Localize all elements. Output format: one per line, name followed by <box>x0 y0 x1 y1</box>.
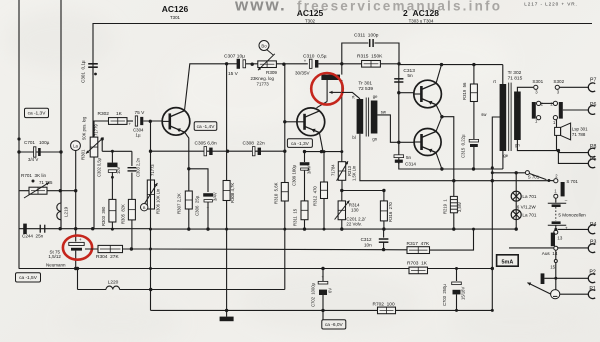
resistor R314 130 pot <box>341 191 343 201</box>
wire Q2 emitter to audio node <box>319 133 323 152</box>
node Q3 base line <box>397 91 400 94</box>
wire R317 right up <box>430 229 474 250</box>
resistor R310 5.6K <box>281 183 288 202</box>
wire base vertical x=284.8 <box>284 64 286 229</box>
wire tone line y=151.3 <box>102 150 132 152</box>
resistor R319 56 <box>473 65 475 84</box>
wire C302 down to R303 <box>111 172 113 199</box>
capacitor C701 100u electrolytic <box>19 151 61 153</box>
capacitor C312 10n <box>383 229 385 238</box>
svg-text:La 701: La 701 <box>522 194 536 199</box>
jack arrow <box>527 283 551 295</box>
wire Q3 collector <box>436 65 441 84</box>
wire main bus y=229.1 <box>151 228 517 230</box>
svg-text:Neumann: Neumann <box>46 262 66 267</box>
svg-text:5n: 5n <box>406 155 412 160</box>
capacitor C315 0.22u <box>469 139 478 142</box>
transistor T302 AC125 <box>297 108 325 136</box>
svg-text:R316 270: R316 270 <box>388 202 393 222</box>
transformer Tr302 secondary winding <box>514 92 521 141</box>
box ca -6,0V <box>322 320 346 329</box>
svg-text:130: 130 <box>351 208 359 213</box>
resistor R305 82K <box>128 199 135 220</box>
svg-text:L219: L219 <box>64 206 69 217</box>
svg-text:5 Monozellen: 5 Monozellen <box>558 213 586 218</box>
wire Q2 base <box>285 121 297 123</box>
wire top rail into Tr302 <box>502 65 504 84</box>
resistor R306 10K pot <box>147 180 154 209</box>
lamp La701 lower <box>511 210 521 220</box>
node base line x284.8 <box>283 150 286 153</box>
wire R313 bottom <box>341 180 343 190</box>
svg-text:ca -6,0V: ca -6,0V <box>325 322 344 328</box>
wire Tr301 primary bottom to switch rail <box>360 134 550 181</box>
wire emitters to R219 column <box>442 117 454 196</box>
wire Aus to P3 <box>509 247 554 249</box>
svg-text:C701: C701 <box>24 140 35 145</box>
wire R304 right to bus <box>123 248 151 250</box>
svg-text:C312: C312 <box>361 237 372 242</box>
svg-text:C301 0,1µ: C301 0,1µ <box>81 60 86 83</box>
wire vertical x=150.5 <box>150 121 152 310</box>
wire bias bar top <box>341 64 343 75</box>
wire second rail x=61 <box>60 0 62 229</box>
wire C307 to R309 <box>246 63 308 65</box>
lamp La701 upper <box>511 191 521 201</box>
svg-text:R307 2,2K: R307 2,2K <box>177 193 182 214</box>
svg-text:100µ: 100µ <box>39 140 50 145</box>
switch contact 13 bar <box>551 233 555 247</box>
node bus x92.7 <box>91 227 94 230</box>
svg-text:6V: 6V <box>328 288 333 293</box>
svg-text:sw: sw <box>381 109 387 114</box>
svg-text:R701 3K lin: R701 3K lin <box>21 173 46 178</box>
svg-text:71773: 71773 <box>257 82 270 87</box>
inductor L219 <box>60 152 62 203</box>
svg-text:AC126: AC126 <box>162 4 189 14</box>
svg-text:ge: ge <box>503 153 508 158</box>
wire jack feed <box>544 277 589 279</box>
svg-text:ca -1,5V: ca -1,5V <box>19 275 38 281</box>
wire x=398.8 vertical <box>398 64 400 164</box>
resistor R316 270 <box>383 191 385 201</box>
node lamp bus <box>515 227 518 230</box>
capacitor C302 0.5u electrolytic <box>111 151 113 162</box>
transistor T301 AC126 <box>162 108 190 136</box>
resistor R315 150K <box>342 63 362 65</box>
wire C314 to emitter bus <box>399 163 503 169</box>
capacitor C310 0.5u <box>309 59 312 68</box>
svg-text:15: 15 <box>550 264 555 269</box>
wire wiper vertical x=341.8 <box>341 80 343 162</box>
svg-text:C307 10µ: C307 10µ <box>224 54 245 60</box>
svg-text:22 Volv.: 22 Volv. <box>346 222 361 227</box>
svg-text:S302: S302 <box>553 79 564 84</box>
wire contact1 to speaker <box>556 120 558 128</box>
capacitor C311 100p <box>342 43 369 64</box>
wire y=190.5 <box>342 190 384 192</box>
svg-text:ca -1,4V: ca -1,4V <box>197 124 216 130</box>
wire C301 down to R301 <box>92 68 94 137</box>
node sw bus 310 <box>491 309 494 312</box>
switch S701 contact 2 <box>554 179 558 183</box>
node Q4 base line <box>397 141 400 144</box>
wire contact 14 down <box>555 250 557 278</box>
switch S302 contact 2 bar <box>559 102 563 119</box>
wire Tr301 secondary tap sw <box>377 115 398 142</box>
svg-text:R304 27K: R304 27K <box>96 254 119 260</box>
svg-text:3/4V: 3/4V <box>213 192 218 201</box>
capacitor C314 5n <box>394 155 404 158</box>
svg-text:3/4V: 3/4V <box>307 165 312 174</box>
svg-text:C308 22n: C308 22n <box>243 141 265 147</box>
svg-text:ca -1,3V: ca -1,3V <box>28 111 47 117</box>
wire St75 down <box>75 251 77 269</box>
annotation red circle around St75 <box>63 236 92 260</box>
svg-text:R305 82K: R305 82K <box>120 204 125 224</box>
capacitor C244 25n <box>23 224 27 234</box>
wire battery plus to P4 <box>558 228 589 230</box>
svg-text:R702 100: R702 100 <box>373 301 395 307</box>
wire C304 to Q1 base <box>143 120 162 122</box>
capacitor C306 25u electrolytic <box>203 193 213 196</box>
wire bus y=268.5 <box>19 268 492 270</box>
svg-text:T303 u T304: T303 u T304 <box>409 19 434 24</box>
svg-text:L217 - L220 + VR.: L217 - L220 + VR. <box>524 2 577 7</box>
svg-text:13: 13 <box>557 235 562 240</box>
wire top rail right <box>399 64 503 66</box>
annotation red circle at driver <box>311 73 343 105</box>
wire C703 branch <box>455 267 458 270</box>
transistor T303 AC128 upper <box>414 80 442 108</box>
wire lamps feed <box>492 172 525 174</box>
wire speaker node to P5 <box>558 151 589 164</box>
node L219 top <box>59 189 62 192</box>
wire bus y=310.4 <box>153 309 493 311</box>
wire Tr302 primary bottom ge <box>502 151 504 169</box>
contact 15 bar <box>541 273 545 284</box>
resistor R313 1.5K lin pot <box>338 162 345 181</box>
svg-text:C314: C314 <box>405 161 416 166</box>
wire S302 to P7 <box>559 86 589 88</box>
node x227.5 on audio line <box>226 150 229 153</box>
svg-text:+: + <box>207 206 210 211</box>
terminal La <box>71 141 81 151</box>
svg-text:La 701: La 701 <box>522 213 536 218</box>
wire jack to P1 <box>560 293 589 295</box>
svg-text:75 V: 75 V <box>135 110 146 116</box>
wire R305 down to R304 node <box>131 220 133 249</box>
svg-text:R310 5,6K: R310 5,6K <box>273 182 278 204</box>
wire bus y=249.0 <box>151 248 408 251</box>
wire Q3 base <box>399 92 414 94</box>
terminal Bo <box>259 41 269 51</box>
svg-text:R308 4,7K: R308 4,7K <box>230 183 235 203</box>
svg-text:R301: R301 <box>81 149 86 160</box>
svg-text:71 788: 71 788 <box>572 132 586 137</box>
svg-text:C311 100p: C311 100p <box>354 33 379 39</box>
wire St75 to R304 <box>85 248 103 250</box>
wire wiper down to tone line <box>101 139 103 151</box>
svg-text:T301: T301 <box>170 15 181 20</box>
svg-text:R703 1K: R703 1K <box>407 261 428 267</box>
node switch out <box>547 179 550 182</box>
wire emitter audio y=151.6 <box>305 151 342 153</box>
wire La down <box>75 151 77 242</box>
svg-text:+: + <box>129 121 132 126</box>
svg-text:R319 56: R319 56 <box>462 82 467 100</box>
capacitor C301 0.1u <box>88 63 98 65</box>
svg-text:gn: gn <box>372 137 377 142</box>
node center bottom bus <box>225 309 228 312</box>
wire Tr302 secondary top to S301 <box>517 87 533 91</box>
box ca -1.3V <box>25 108 49 117</box>
svg-text:C315 0,22µ: C315 0,22µ <box>460 134 465 158</box>
wire bias vertical <box>326 80 328 102</box>
svg-text:3: 3 <box>535 90 538 95</box>
svg-text:sw: sw <box>481 112 487 117</box>
svg-text:R312 470: R312 470 <box>312 186 317 206</box>
resistor R703 1K <box>409 267 428 274</box>
svg-text:30/35V: 30/35V <box>295 70 310 75</box>
svg-text:23Kneg. log: 23Kneg. log <box>251 76 275 81</box>
svg-text:www.: www. <box>234 0 287 15</box>
resistor R304 27K <box>98 245 123 252</box>
svg-text:C702 1000µ: C702 1000µ <box>311 282 316 307</box>
svg-text:S 701: S 701 <box>566 179 578 184</box>
svg-text:10n: 10n <box>364 242 372 247</box>
svg-text:3: 3 <box>557 90 560 95</box>
wire bias wiper arrow <box>329 91 342 93</box>
switch S301 contact 3 <box>534 85 538 89</box>
capacitor C305 6.8n <box>204 147 207 156</box>
node C702 bottom <box>321 309 324 312</box>
svg-text:1,5/12: 1,5/12 <box>48 254 61 259</box>
resistor R701 3K pot <box>29 187 47 194</box>
svg-text:L220: L220 <box>108 280 119 286</box>
svg-text:1,5K Lin: 1,5K Lin <box>352 165 357 181</box>
svg-text:72 539: 72 539 <box>358 86 373 92</box>
switch S302 contact 3 <box>555 85 559 89</box>
wire Q4 base <box>399 141 414 143</box>
wire speaker bottom <box>556 135 558 150</box>
resistor R301 50K pot <box>90 137 98 157</box>
switch S301 contact 2 bar <box>532 102 536 119</box>
svg-text:R306 10K Lin: R306 10K Lin <box>155 188 160 214</box>
terminal B <box>141 204 148 211</box>
switch contact Aus 14 <box>554 246 558 250</box>
svg-text:Tr 301: Tr 301 <box>358 80 372 86</box>
transformer Tr301 primary winding <box>357 99 364 134</box>
svg-text:La: La <box>73 144 78 149</box>
wire Q1 emitter down <box>185 132 189 169</box>
capacitor C303 2.2n <box>131 151 133 166</box>
resistor R309 23K pot <box>258 61 277 68</box>
svg-text:bl: bl <box>517 94 520 99</box>
svg-text:1: 1 <box>553 120 556 125</box>
svg-text:R303 390: R303 390 <box>101 206 106 226</box>
switch contact 15 <box>554 260 557 263</box>
box ca -1,5V <box>16 273 41 282</box>
capacitor C304 1u electrolytic <box>135 116 137 126</box>
resistor R302 1K <box>109 118 128 125</box>
switch S302 contact 1 <box>553 116 557 120</box>
inductor L220 <box>106 286 120 289</box>
capacitor C308 22n <box>252 147 255 156</box>
wire bias wiper to Tr301 primary <box>342 92 360 98</box>
box ca -1,4V <box>194 122 217 131</box>
svg-text:71784: 71784 <box>331 164 336 176</box>
svg-text:3/4 V: 3/4 V <box>28 157 38 162</box>
jack circle <box>551 290 560 299</box>
resistor R317 47K <box>407 247 430 254</box>
wire to La line <box>60 190 75 192</box>
wire top feed from C301 <box>93 24 592 76</box>
wire L220 branch <box>77 269 79 290</box>
resistor R312 470 <box>323 152 325 182</box>
transformer Tr301 core <box>365 98 367 137</box>
svg-text:3,5W: 3,5W <box>457 202 462 212</box>
svg-text:R315 150K: R315 150K <box>357 54 383 60</box>
wire Q1 emitter branch <box>189 169 208 192</box>
switch S701 blade <box>525 171 529 175</box>
capacitor C307 10u electrolytic <box>237 59 240 69</box>
svg-text:R311 15: R311 15 <box>293 208 298 226</box>
wire center vertical x=226.6 <box>226 64 228 311</box>
svg-text:–: – <box>565 198 568 203</box>
svg-text:15 V: 15 V <box>228 71 239 77</box>
svg-text:C244 25n: C244 25n <box>22 234 44 239</box>
svg-text:T302: T302 <box>305 19 316 24</box>
resistor R307 2.2K <box>188 169 190 191</box>
wire Q4 collector <box>436 117 442 132</box>
switch S301 contact 1 <box>537 116 541 120</box>
wire sw vertical x=492.3 <box>492 117 500 310</box>
wire Tr302 secondary bottom <box>517 140 558 151</box>
wire L220 to node <box>120 289 285 291</box>
capacitor C702 1000u electrolytic <box>318 281 328 284</box>
capacitor C309 100u electrolytic <box>304 152 306 162</box>
svg-text:Bo: Bo <box>261 44 267 49</box>
transistor T304 AC128 lower <box>414 129 441 156</box>
svg-text:ge: ge <box>373 94 378 99</box>
resistor R702 100 <box>378 307 396 314</box>
wire R310 lower to L220 wire <box>284 229 286 289</box>
wire top rail to C307 <box>227 63 237 65</box>
transformer Tr302 core <box>508 83 510 151</box>
svg-text:bl: bl <box>352 135 355 140</box>
svg-text:ca -1,3V: ca -1,3V <box>291 141 310 147</box>
node bus x61 <box>59 227 62 230</box>
svg-text:6 V/1,2W: 6 V/1,2W <box>517 205 537 210</box>
wire gn node to P8 <box>558 152 589 154</box>
svg-text:B: B <box>143 205 146 210</box>
svg-text:C309 100µ: C309 100µ <box>291 164 296 186</box>
box ca -1,3V (Q2) <box>287 139 312 148</box>
battery 5 Monozellen <box>555 198 557 202</box>
wire R301 top to R302 <box>94 121 109 137</box>
speaker Lsp 301 / 71 788 <box>555 127 561 135</box>
wire battery to contact 13 <box>555 225 557 231</box>
wire R301 bottom <box>93 157 95 229</box>
wire to jack tip <box>555 278 557 289</box>
wire Q4 emitter <box>436 153 442 169</box>
svg-text:1µ: 1µ <box>136 132 141 137</box>
svg-text:Tr 302: Tr 302 <box>508 70 522 76</box>
wire Q3 emitter <box>436 105 442 117</box>
capacitor C313 5n <box>394 78 403 80</box>
wire C702 branch <box>321 267 324 270</box>
wire lamp column <box>515 173 517 229</box>
node R307 bus <box>187 227 190 230</box>
svg-text:C703 250µ: C703 250µ <box>442 284 447 306</box>
svg-text:C305 6,8n: C305 6,8n <box>195 141 217 147</box>
wire bar to P6 <box>563 109 589 111</box>
wire R302 to C304 <box>127 120 133 122</box>
wire Q1 collector to top <box>185 64 227 111</box>
node C306 bus <box>206 227 209 230</box>
wire R701 row <box>19 190 60 192</box>
svg-text:10V: 10V <box>116 166 121 174</box>
capacitor St75 microphone <box>69 242 84 245</box>
svg-text:1K: 1K <box>116 111 123 117</box>
wire contact2 bridge <box>541 102 554 104</box>
resistor R303 390 <box>109 199 116 222</box>
resistor R311 15 <box>301 201 308 220</box>
resistor R219 1 3.5W <box>450 196 457 212</box>
svg-text:rt: rt <box>493 79 496 84</box>
svg-text:R302: R302 <box>98 111 110 117</box>
capacitor C703 250u electrolytic <box>452 282 462 285</box>
svg-text:freeservicemanuals.info: freeservicemanuals.info <box>297 0 502 13</box>
ground symbol <box>226 310 228 316</box>
svg-text:5mA: 5mA <box>502 259 514 265</box>
svg-text:15/18V: 15/18V <box>461 287 466 300</box>
resistor R308 4.7K <box>223 181 230 201</box>
svg-text:C313: C313 <box>403 68 415 74</box>
svg-text:2: 2 <box>541 102 544 107</box>
svg-text:S 701: S 701 <box>528 175 540 180</box>
transformer Tr302 primary winding <box>500 84 507 151</box>
svg-text:71 815: 71 815 <box>508 76 523 82</box>
svg-text:C303 2,2n: C303 2,2n <box>136 157 141 177</box>
wire left rail x=19 <box>18 0 20 269</box>
svg-text:+: + <box>79 237 82 242</box>
svg-text:C306 25µ: C306 25µ <box>195 195 200 216</box>
svg-text:5n: 5n <box>407 73 413 79</box>
svg-text:R219 1: R219 1 <box>443 199 448 214</box>
svg-text:C310 0,5µ: C310 0,5µ <box>303 53 327 59</box>
wire bias into Q2 <box>317 102 328 108</box>
switch S701 bar <box>561 182 565 196</box>
svg-text:S301: S301 <box>532 79 543 84</box>
node bus x75.7 <box>74 227 77 230</box>
svg-text:R309: R309 <box>266 70 277 75</box>
svg-text:50K pos. log: 50K pos. log <box>82 116 87 140</box>
bias element dark bar <box>321 75 340 80</box>
wire C310 right <box>318 63 341 65</box>
svg-text:C302 0,5µ: C302 0,5µ <box>97 157 102 177</box>
wire C303 to R305 <box>131 173 133 200</box>
transformer Tr301 secondary winding <box>371 101 378 134</box>
wire audio y=151.2 <box>151 150 285 152</box>
box 5mA <box>497 255 519 266</box>
wire bus y=228.7 <box>19 228 151 230</box>
